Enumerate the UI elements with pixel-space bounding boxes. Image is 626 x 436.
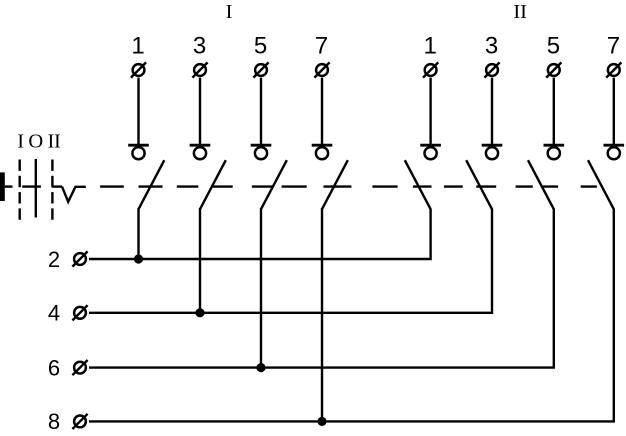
switch blade, pole 7 bank II	[588, 160, 614, 209]
wire: bank I pole 1 down to bus 2	[137, 208, 139, 259]
switch blade, pole 1 bank I	[139, 160, 165, 209]
terminal pin 5 (bank II): number, slashed-circle symbol and lead	[546, 32, 561, 146]
wire: bus 4 from terminal 4 to bank II pole 3 (corner riser)	[89, 209, 492, 313]
junction dot: bank I pole 1 on bus 2	[134, 254, 143, 263]
svg-text:7: 7	[315, 32, 328, 59]
svg-text:3: 3	[193, 32, 206, 59]
mechanical linkage dashed shaft line	[100, 185, 597, 187]
wire: bank I pole 7 down to bus 8	[321, 208, 323, 421]
fixed contact with moving-contact circle, pole 3 bank I	[190, 145, 211, 159]
switch blade, pole 5 bank I	[261, 160, 287, 209]
junction dot: bank I pole 5 on bus 6	[256, 363, 265, 372]
terminal pin 3 (bank II): number, slashed-circle symbol and lead	[484, 32, 499, 146]
linkage dash through O	[22, 185, 41, 187]
fixed contact with moving-contact circle, pole 5 bank II	[544, 145, 565, 159]
svg-text:7: 7	[607, 32, 620, 59]
actuator handle (black bar at left edge)	[0, 172, 5, 201]
switch blade, pole 3 bank II	[466, 160, 492, 209]
svg-text:3: 3	[485, 32, 498, 59]
wire: bus 6 from terminal 6 to bank II pole 5 (corner riser)	[89, 209, 554, 368]
terminal pin 5 (bank I): number, slashed-circle symbol and lead	[253, 32, 268, 146]
wire: bank I pole 3 down to bus 4	[199, 208, 201, 313]
fixed contact with moving-contact circle, pole 3 bank II	[482, 145, 503, 159]
svg-text:5: 5	[547, 32, 560, 59]
switch blade, pole 7 bank I	[322, 160, 348, 209]
svg-text:I: I	[226, 1, 233, 23]
terminal pin 7 (bank I): number, slashed-circle symbol and lead	[314, 32, 329, 146]
linkage dash from handle	[5, 185, 13, 187]
wire: bus 2 from terminal 2 to bank II pole 1 (corner riser)	[89, 209, 431, 259]
switch blade, pole 1 bank II	[405, 160, 431, 209]
svg-text:5: 5	[254, 32, 267, 59]
wire: bank I pole 5 down to bus 6	[260, 208, 262, 368]
svg-text:I O II: I O II	[17, 130, 61, 152]
svg-text:1: 1	[131, 32, 144, 59]
wire: bus 8 from terminal 8 to bank II pole 7 (corner riser)	[89, 209, 614, 422]
position mark O (solid vertical)	[35, 159, 37, 218]
svg-text:4: 4	[48, 301, 60, 326]
terminal pin 6: number and slashed-circle symbol	[48, 355, 88, 380]
switch blade, pole 3 bank I	[200, 160, 226, 209]
terminal pin 2: number and slashed-circle symbol	[48, 247, 88, 272]
svg-text:II: II	[513, 1, 527, 23]
fixed contact with moving-contact circle, pole 7 bank II	[604, 145, 625, 159]
terminal pin 4: number and slashed-circle symbol	[48, 301, 88, 326]
junction dot: bank I pole 7 on bus 8	[317, 417, 326, 426]
terminal pin 1 (bank II): number, slashed-circle symbol and lead	[423, 32, 438, 146]
svg-text:6: 6	[48, 355, 60, 380]
position mark II (dashed vertical)	[51, 160, 53, 222]
svg-text:8: 8	[48, 409, 60, 434]
fixed contact with moving-contact circle, pole 1 bank I	[128, 145, 149, 159]
terminal pin 3 (bank I): number, slashed-circle symbol and lead	[192, 32, 207, 146]
svg-text:2: 2	[48, 247, 60, 272]
junction dot: bank I pole 3 on bus 4	[195, 308, 204, 317]
fixed contact with moving-contact circle, pole 7 bank I	[312, 145, 333, 159]
linkage dash after II	[52, 185, 62, 187]
svg-text:1: 1	[424, 32, 437, 59]
fixed contact with moving-contact circle, pole 1 bank II	[420, 145, 441, 159]
fixed contact with moving-contact circle, pole 5 bank I	[251, 145, 272, 159]
terminal pin 7 (bank II): number, slashed-circle symbol and lead	[606, 32, 621, 146]
position mark I (dashed vertical)	[19, 160, 21, 222]
switch blade, pole 5 bank II	[528, 160, 554, 209]
detent notch (V)	[62, 187, 86, 202]
terminal pin 1 (bank I): number, slashed-circle symbol and lead	[131, 32, 146, 146]
terminal pin 8: number and slashed-circle symbol	[48, 409, 88, 434]
